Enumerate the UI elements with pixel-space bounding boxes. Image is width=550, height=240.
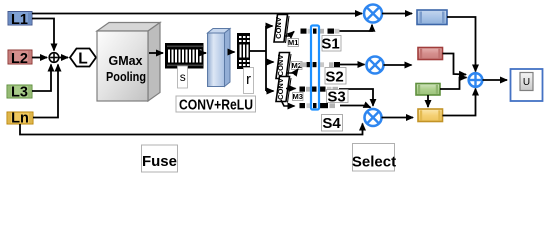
svg-text:M1: M1 [288,38,298,47]
output box yellow [418,109,443,122]
CONV block 1 [274,15,289,44]
multiplier X4 [365,109,382,126]
label S3 [327,88,349,105]
wire CONV3 down to strip S4 [281,100,295,106]
multiplier X1 [364,5,382,23]
svg-text:L: L [78,50,87,67]
wire Ln up to adder [33,65,58,118]
wire strip S3 down to multiplier X4 [339,89,373,106]
wire r to conv trunk [250,50,266,52]
adder circle [49,53,59,63]
wire blue box down to adder2 [447,17,476,72]
svg-text:Pooling: Pooling [106,70,146,84]
wire L2 to adder [32,57,47,59]
input box L2 [8,50,32,67]
svg-text:M3: M3 [292,92,302,101]
wire X4 to yellow output box [382,117,414,119]
wire X2 to red output box [384,64,412,66]
output box blue [417,10,447,25]
wire strip S2 to multiplier X2 [340,64,365,66]
svg-text:CONV: CONV [274,17,283,39]
svg-text:S2: S2 [325,69,343,86]
weight strip S2 [300,62,340,67]
wire adder to hexagon L [59,57,68,59]
wire strip S4 to multiplier X4 junction [340,106,371,108]
svg-text:Select: Select [352,153,396,170]
input box Ln [7,111,33,127]
weight strip S3 [300,87,339,92]
svg-text:L2: L2 [11,51,28,67]
wire L3 up to adder [32,65,51,92]
svg-text:S3: S3 [327,88,345,105]
wire CONV1 to strip S1 [284,32,294,37]
wire L1 branch down to adder [32,19,54,51]
label Fuse [142,145,178,172]
svg-text:CONV: CONV [276,55,285,77]
CONV block 3 [276,77,291,103]
FC slab (blue 3D) [208,29,231,87]
output box U [511,69,543,101]
wire trunk to CONV M2 [266,61,274,63]
multiplier X2 [367,57,384,74]
hexagon node L [70,49,96,68]
label S1 [321,36,341,53]
wire green box down to yellow box [427,95,429,107]
wire s to FC slab [204,52,207,54]
svg-text:r: r [246,71,251,88]
weight strip S4 [300,103,336,108]
svg-text:U: U [523,77,530,88]
wire CONV3 to strip S3 [286,88,296,90]
input box L3 [7,85,32,101]
label Select [352,144,396,172]
svg-text:CONV+ReLU: CONV+ReLU [179,98,253,114]
wire Ln bottom route to multiplier X4 [20,124,363,135]
wire trunk to CONV M1 [266,25,273,27]
label r [244,68,254,94]
wire GMax to vector s [149,52,163,54]
wire trunk to CONV M3 [266,90,274,92]
svg-text:Fuse: Fuse [142,153,177,170]
wire strip S1 up to multiplier X1 [340,25,373,31]
conv trunk vertical [265,26,267,91]
output box red [418,48,443,60]
wire red box to adder2 [443,54,467,75]
CONV block 2 [276,53,291,80]
wire L1 top route to multiplier X1 [32,13,362,15]
vector block r (striped) [237,33,250,69]
label M1 [288,38,299,47]
vector block s (striped) [165,43,204,69]
label M2 [291,61,302,70]
label s [178,66,188,88]
label S2 [325,68,346,86]
wire slab to vector r [230,51,235,53]
svg-text:S4: S4 [322,115,341,132]
wire adder2 to U box [483,79,508,81]
wire X1 to blue output box [382,13,412,15]
wire green box to adder2 [440,78,467,90]
wire yellow box up to adder2 [443,89,476,116]
svg-text:GMax: GMax [108,54,142,68]
svg-text:L1: L1 [11,12,28,28]
label CONV+ReLU [176,96,256,114]
label M3 [292,92,303,101]
svg-text:s: s [180,70,186,84]
output box green [416,84,440,96]
svg-text:CONV: CONV [276,78,285,100]
svg-text:S1: S1 [321,36,339,53]
weight strip S1 [301,29,340,34]
GMax Pooling 3D block [97,23,160,102]
softmax column (blue) [311,26,319,110]
svg-text:L3: L3 [11,85,28,101]
wire CONV2 to strip S2 [286,69,298,73]
input box L1 [8,12,32,28]
label S4 [322,115,343,133]
adder2 circle (blue) [469,73,483,87]
